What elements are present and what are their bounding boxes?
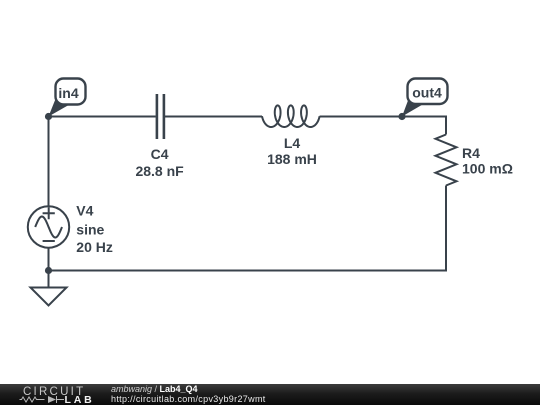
svg-text:188 mH: 188 mH [267, 151, 317, 167]
svg-text:LAB: LAB [65, 394, 95, 405]
svg-text:100 mΩ: 100 mΩ [462, 161, 513, 177]
svg-text:in4: in4 [58, 85, 78, 101]
svg-text:R4: R4 [462, 145, 480, 161]
svg-text:V4: V4 [76, 203, 93, 219]
svg-text:sine: sine [76, 221, 104, 237]
svg-text:C4: C4 [151, 146, 169, 162]
svg-text:L4: L4 [284, 135, 301, 151]
svg-text:20 Hz: 20 Hz [76, 239, 113, 255]
svg-text:28.8 nF: 28.8 nF [135, 163, 184, 179]
svg-text:out4: out4 [412, 84, 442, 100]
